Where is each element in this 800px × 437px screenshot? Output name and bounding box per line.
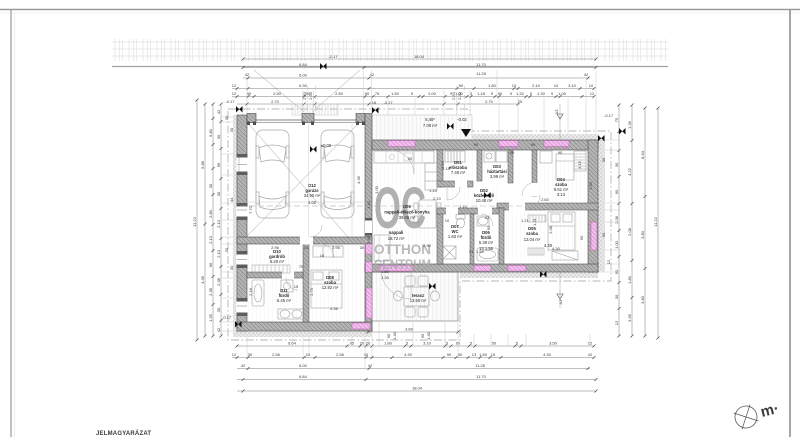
svg-text:2.50: 2.50 bbox=[273, 91, 282, 96]
axis line A3 bottom bbox=[559, 272, 561, 308]
svg-text:3.10: 3.10 bbox=[568, 83, 577, 88]
svg-text:75: 75 bbox=[614, 117, 619, 122]
svg-text:2.50: 2.50 bbox=[302, 91, 307, 100]
svg-text:7.48 m²: 7.48 m² bbox=[451, 170, 466, 175]
svg-text:1.21: 1.21 bbox=[532, 217, 537, 226]
garage dashed section line bbox=[240, 205, 368, 207]
svg-text:2.38: 2.38 bbox=[208, 287, 213, 296]
right dim line 11.22 bbox=[657, 108, 659, 338]
svg-text:30: 30 bbox=[248, 352, 253, 357]
svg-text:12: 12 bbox=[606, 259, 611, 264]
svg-text:JELMAGYARÁZAT: JELMAGYARÁZAT bbox=[96, 430, 151, 437]
svg-text:90: 90 bbox=[474, 142, 479, 147]
svg-text:1.50: 1.50 bbox=[588, 181, 593, 190]
door gap fürdő bbox=[478, 208, 492, 215]
svg-text:1.40: 1.40 bbox=[366, 200, 371, 209]
svg-text:10.48 m²: 10.48 m² bbox=[476, 198, 493, 203]
LEFT DIMENSIONS bbox=[197, 100, 221, 340]
dim line row C (6.00 / 11.28) bbox=[243, 77, 590, 79]
svg-text:2.08: 2.08 bbox=[548, 225, 553, 234]
svg-text:1.00: 1.00 bbox=[374, 185, 379, 194]
dimension extension lines right bbox=[598, 140, 620, 272]
svg-text:30: 30 bbox=[216, 191, 221, 196]
svg-text:12: 12 bbox=[232, 91, 237, 96]
window gap in left wall bottom (fürdő) bbox=[237, 298, 248, 316]
insulation band right of right wall bbox=[598, 140, 605, 272]
svg-text:2.30: 2.30 bbox=[457, 91, 462, 100]
svg-text:1.30: 1.30 bbox=[537, 91, 546, 96]
door gap WC bbox=[446, 208, 458, 215]
bottom wall window 1 (pink) bbox=[474, 266, 491, 272]
svg-text:5.80: 5.80 bbox=[208, 128, 213, 137]
svg-text:1.21: 1.21 bbox=[521, 218, 530, 223]
window gap in left wall upper bbox=[237, 154, 248, 175]
wall: left block bottom bbox=[237, 322, 372, 331]
svg-text:90: 90 bbox=[579, 235, 584, 240]
svg-text:10: 10 bbox=[589, 83, 594, 88]
svg-text:-0.17: -0.17 bbox=[222, 315, 232, 320]
svg-text:42: 42 bbox=[216, 109, 221, 114]
insulation band above right wing wall bbox=[472, 134, 598, 141]
window gap in left wall (gardrób) bbox=[237, 251, 248, 268]
svg-text:30: 30 bbox=[364, 352, 369, 357]
szoba D05 door swing bbox=[525, 195, 540, 210]
svg-text:12.92 m²: 12.92 m² bbox=[322, 285, 339, 290]
svg-text:2.90: 2.90 bbox=[423, 243, 432, 248]
window top wall 2 (pink) bbox=[544, 141, 569, 147]
right dim line 3 bbox=[644, 108, 646, 336]
FURNITURE: D08 wardrobe bbox=[313, 246, 343, 257]
entry triangle marker bbox=[461, 129, 471, 137]
garage front pier left bbox=[247, 114, 256, 123]
svg-text:1.80: 1.80 bbox=[384, 341, 393, 346]
svg-text:2.10: 2.10 bbox=[216, 219, 221, 228]
svg-text:A3: A3 bbox=[554, 109, 559, 115]
svg-text:11.70: 11.70 bbox=[476, 62, 486, 67]
svg-text:12.04 m²: 12.04 m² bbox=[524, 237, 541, 242]
svg-text:2.00: 2.00 bbox=[428, 91, 437, 96]
svg-text:11.28: 11.28 bbox=[476, 71, 486, 76]
svg-text:34.90 m²: 34.90 m² bbox=[304, 193, 321, 198]
svg-text:90: 90 bbox=[601, 232, 606, 237]
svg-text:1.10: 1.10 bbox=[459, 204, 468, 209]
svg-text:30: 30 bbox=[208, 183, 213, 188]
svg-text:12: 12 bbox=[232, 83, 237, 88]
svg-text:2.60: 2.60 bbox=[366, 235, 371, 244]
insulation band left of left wall bbox=[233, 115, 238, 337]
svg-text:-0.17: -0.17 bbox=[225, 99, 235, 104]
dim line row E (small dims) bbox=[232, 96, 594, 98]
svg-text:30: 30 bbox=[216, 134, 221, 139]
fürdő door swing bbox=[481, 214, 493, 226]
FURNITURE: car 2 bbox=[321, 130, 354, 218]
svg-text:16: 16 bbox=[372, 100, 377, 105]
svg-text:42: 42 bbox=[584, 72, 589, 77]
svg-text:6.30: 6.30 bbox=[299, 83, 308, 88]
WATERMARK bbox=[374, 176, 431, 272]
svg-text:10: 10 bbox=[491, 352, 496, 357]
door gap D05 bbox=[509, 203, 525, 211]
insulation band below right wing bottom wall bbox=[460, 272, 598, 278]
svg-text:90: 90 bbox=[447, 352, 452, 357]
svg-text:75: 75 bbox=[375, 91, 380, 96]
svg-text:12: 12 bbox=[614, 320, 619, 325]
terrace bottom dim line bbox=[368, 331, 458, 333]
svg-text:90: 90 bbox=[558, 150, 563, 155]
svg-text:2.08: 2.08 bbox=[614, 215, 619, 224]
svg-text:13.50 m²: 13.50 m² bbox=[410, 298, 427, 303]
section marker right dim bbox=[619, 128, 626, 135]
right dim detail line bbox=[618, 105, 620, 336]
bottom wall window 2 (pink) bbox=[508, 266, 526, 272]
svg-text:3.89: 3.89 bbox=[405, 327, 414, 332]
svg-text:2.96: 2.96 bbox=[272, 352, 281, 357]
FURNITURE: kitchen counter bbox=[374, 151, 434, 163]
svg-text:6.00: 6.00 bbox=[299, 363, 308, 368]
dim line row A (-2.17 / 18.04) bbox=[243, 58, 596, 60]
wall: garage right / porch left spine bbox=[365, 114, 372, 332]
FURNITURE: D05 bed bbox=[548, 212, 575, 250]
svg-text:-0.17: -0.17 bbox=[604, 113, 614, 118]
svg-text:42: 42 bbox=[216, 327, 221, 332]
wall: D01/D03 vertical bbox=[477, 150, 482, 181]
svg-text:30: 30 bbox=[229, 127, 234, 132]
svg-text:26: 26 bbox=[366, 341, 371, 346]
svg-text:50: 50 bbox=[408, 156, 413, 161]
wall: fürdő / szoba vertical bbox=[499, 208, 504, 264]
svg-text:44: 44 bbox=[229, 197, 234, 202]
svg-text:42: 42 bbox=[588, 352, 593, 357]
D08 terrace door (pink) on spine wall bbox=[366, 288, 372, 318]
svg-text:1.80: 1.80 bbox=[627, 275, 632, 284]
svg-text:42: 42 bbox=[368, 363, 373, 368]
wall: garage / back rooms divider bbox=[237, 237, 372, 244]
D08 door swing bbox=[320, 244, 334, 258]
svg-text:90: 90 bbox=[614, 269, 619, 274]
svg-text:4.30: 4.30 bbox=[543, 352, 552, 357]
svg-text:6.64: 6.64 bbox=[288, 341, 297, 346]
svg-text:1.32: 1.32 bbox=[516, 91, 525, 96]
wall: WC / fürdő vertical bbox=[470, 214, 474, 264]
svg-text:nappali: nappali bbox=[389, 230, 404, 235]
svg-text:6.20 m²: 6.20 m² bbox=[270, 259, 285, 264]
FURNITURE: kitchen tall units bbox=[425, 163, 437, 190]
svg-text:42: 42 bbox=[241, 363, 246, 368]
svg-text:6.45 m²: 6.45 m² bbox=[277, 298, 292, 303]
svg-text:30: 30 bbox=[601, 157, 606, 162]
window right wall (pink) bbox=[591, 222, 597, 250]
svg-text:6.84: 6.84 bbox=[299, 62, 308, 67]
pink corner mark bottom of spine bbox=[352, 323, 370, 329]
pink corner joint spine/bottom wall bbox=[366, 262, 373, 272]
svg-text:90: 90 bbox=[614, 189, 619, 194]
right dim line 2 bbox=[631, 105, 633, 336]
svg-text:90: 90 bbox=[365, 91, 370, 96]
svg-text:A3: A3 bbox=[558, 299, 563, 305]
svg-text:2.96: 2.96 bbox=[271, 245, 280, 250]
svg-text:96: 96 bbox=[216, 162, 221, 167]
FURNITURE: car 1 bbox=[256, 130, 289, 218]
svg-text:11.22: 11.22 bbox=[653, 216, 658, 226]
section marker porch bbox=[447, 123, 454, 130]
door gap D11 bbox=[282, 272, 294, 279]
roof diagonal through garage to terrace bbox=[247, 122, 419, 318]
svg-text:13: 13 bbox=[472, 352, 477, 357]
roof diagonal garage cross bbox=[247, 122, 360, 236]
svg-text:2.60: 2.60 bbox=[541, 197, 550, 202]
svg-text:3.50: 3.50 bbox=[549, 341, 558, 346]
axis line A3 top bbox=[559, 104, 561, 140]
svg-text:18.04: 18.04 bbox=[412, 386, 423, 391]
insulation band below left block bottom wall bbox=[233, 331, 372, 337]
wall: right wing right bbox=[588, 140, 598, 272]
svg-text:2.10: 2.10 bbox=[440, 160, 445, 169]
FURNITURE: WC toilet bbox=[443, 215, 465, 260]
wall: right wing bottom bbox=[365, 264, 598, 272]
svg-text:3.13: 3.13 bbox=[557, 192, 566, 197]
wall: left exterior bbox=[237, 115, 247, 331]
svg-text:5.39 m²: 5.39 m² bbox=[479, 240, 494, 245]
left dim line 11.22 bbox=[196, 100, 198, 340]
svg-text:13: 13 bbox=[469, 249, 474, 254]
bottom dim row 1 bbox=[237, 345, 594, 347]
svg-text:2.10: 2.10 bbox=[433, 196, 442, 201]
svg-text:30: 30 bbox=[224, 247, 229, 252]
section marker A bbox=[236, 106, 243, 113]
left dim line 5.86/4.36 bbox=[204, 104, 206, 336]
FURNITURE: sofa nappali bbox=[374, 235, 390, 261]
svg-text:7.70: 7.70 bbox=[248, 205, 253, 214]
svg-text:D09: D09 bbox=[403, 204, 411, 209]
garage front pier right bbox=[356, 114, 365, 123]
svg-text:2.30: 2.30 bbox=[308, 91, 313, 100]
svg-text:90: 90 bbox=[459, 83, 464, 88]
svg-text:4.36: 4.36 bbox=[356, 175, 361, 184]
svg-text:1.40: 1.40 bbox=[426, 331, 431, 340]
left dim line details bbox=[212, 104, 214, 336]
bottom dim row 4 bbox=[237, 379, 596, 381]
svg-text:2.38: 2.38 bbox=[216, 277, 221, 286]
dim line row B (6.84 / 11.70) bbox=[243, 67, 596, 69]
svg-text:5,40²: 5,40² bbox=[425, 117, 435, 122]
terrace deck bbox=[368, 272, 458, 321]
wall: D04 bottom / szoba top bbox=[497, 203, 598, 210]
svg-text:2.70: 2.70 bbox=[271, 99, 280, 104]
svg-text:2.10: 2.10 bbox=[532, 83, 541, 88]
section marker B bbox=[372, 107, 379, 114]
svg-text:30: 30 bbox=[229, 265, 234, 270]
level marker garage bbox=[310, 146, 317, 153]
FURNITURE: dining table bbox=[414, 200, 441, 228]
window top wall 1 (pink) bbox=[499, 141, 518, 147]
svg-text:2.50: 2.50 bbox=[451, 91, 456, 100]
niche gap in spine wall (nappali) bbox=[365, 218, 372, 236]
svg-text:2.73: 2.73 bbox=[309, 287, 314, 296]
section marker bottom-left corner bbox=[235, 321, 242, 328]
svg-text:2.18: 2.18 bbox=[248, 287, 253, 296]
FURNITURE: D03 appliances bbox=[484, 151, 507, 162]
dimension extension lines bottom bbox=[247, 322, 590, 368]
FURNITURE: terrace table & chairs bbox=[394, 276, 440, 317]
compass bbox=[730, 401, 763, 434]
svg-text:2.30: 2.30 bbox=[381, 275, 390, 280]
FURNITURE: D10 wardrobe comb bbox=[252, 265, 290, 273]
section marker bottom wall bbox=[540, 271, 547, 278]
black section markers (bowties) bbox=[235, 63, 626, 328]
svg-text:90: 90 bbox=[247, 91, 252, 96]
svg-text:18.04: 18.04 bbox=[414, 54, 425, 59]
svg-text:12: 12 bbox=[232, 352, 237, 357]
svg-text:3.13: 3.13 bbox=[577, 160, 582, 169]
svg-text:11.22: 11.22 bbox=[192, 216, 197, 226]
page frame right line bbox=[789, 10, 791, 437]
FURNITURE: D05 chest bbox=[552, 251, 578, 260]
door gap D08 bbox=[300, 237, 313, 245]
terrace door swing bbox=[381, 269, 411, 299]
előszoba to közlekedő swing bbox=[447, 187, 460, 200]
door gap előszoba bbox=[455, 181, 467, 188]
pink joint spine/divider wall bbox=[366, 244, 373, 254]
svg-text:1.40: 1.40 bbox=[392, 331, 397, 340]
FURNITURE: D05 radiator comb bbox=[528, 215, 546, 255]
svg-text:90: 90 bbox=[486, 225, 491, 230]
svg-text:43: 43 bbox=[485, 215, 490, 220]
roof projection V funnel left arm bbox=[254, 70, 304, 112]
svg-text:4.36: 4.36 bbox=[330, 306, 339, 311]
svg-text:1.55: 1.55 bbox=[479, 352, 488, 357]
svg-text:1.80: 1.80 bbox=[488, 83, 497, 88]
svg-text:30: 30 bbox=[360, 245, 365, 250]
short dashed axis stubs above garage door bbox=[308, 86, 465, 114]
svg-text:1.18: 1.18 bbox=[477, 91, 486, 96]
bottom dim row 2 bbox=[232, 357, 594, 359]
svg-text:nappali-étkező-konyha: nappali-étkező-konyha bbox=[384, 210, 430, 215]
svg-text:-0.02: -0.02 bbox=[457, 117, 467, 122]
entry door (pink) top wall bbox=[388, 141, 415, 147]
D11 door swing bbox=[286, 278, 298, 290]
svg-text:2.96: 2.96 bbox=[336, 352, 345, 357]
A3 triangle top bbox=[557, 114, 563, 119]
svg-text:4.36: 4.36 bbox=[200, 275, 205, 284]
level marker hall bbox=[484, 192, 491, 199]
pavement lower edge line bbox=[112, 66, 668, 68]
FURNITURE: D08 bed bbox=[311, 270, 342, 308]
dimension extension lines left bbox=[222, 117, 237, 331]
svg-text:6.00: 6.00 bbox=[308, 200, 317, 205]
top pavement hatch band bbox=[112, 39, 668, 61]
svg-text:szoba: szoba bbox=[526, 231, 539, 236]
svg-text:2.10: 2.10 bbox=[216, 249, 221, 258]
svg-text:2.96: 2.96 bbox=[332, 245, 341, 250]
room floor stripes bbox=[247, 150, 588, 322]
svg-text:95: 95 bbox=[350, 341, 355, 346]
wall: D03 right vertical bbox=[508, 150, 513, 183]
ROOM LABELS bbox=[269, 117, 569, 303]
page frame top line bbox=[0, 9, 800, 11]
svg-text:15: 15 bbox=[294, 284, 299, 289]
svg-text:96: 96 bbox=[208, 262, 213, 267]
BOTTOM DIMENSIONS bbox=[232, 346, 596, 391]
svg-text:±0.00: ±0.00 bbox=[321, 143, 332, 148]
TOP DIMENSIONS bbox=[232, 59, 596, 104]
svg-text:3.99 m²: 3.99 m² bbox=[490, 174, 505, 179]
garage front pier center bbox=[302, 114, 314, 123]
section marker top dim bbox=[320, 63, 327, 70]
dimension extension lines top bbox=[247, 70, 596, 140]
svg-text:36.06 m²: 36.06 m² bbox=[399, 215, 416, 220]
terrace door nappali (pink) bbox=[379, 266, 413, 272]
svg-text:8.64: 8.64 bbox=[640, 150, 645, 159]
svg-text:1.05: 1.05 bbox=[558, 91, 567, 96]
window gap in left wall mid bbox=[237, 203, 248, 220]
dim line row F (2.70 segments) bbox=[237, 103, 520, 105]
svg-text:30: 30 bbox=[216, 307, 221, 312]
nappali dashed section line bbox=[372, 205, 598, 207]
garage apron grate bbox=[292, 104, 338, 115]
svg-text:16: 16 bbox=[320, 253, 325, 258]
svg-text:2.08: 2.08 bbox=[627, 227, 632, 236]
entry door swing bbox=[390, 150, 414, 174]
rotated small labels near garage door bbox=[302, 91, 563, 340]
wall: D10 / D11 horizontal bbox=[247, 272, 303, 278]
svg-text:11.28: 11.28 bbox=[475, 363, 485, 368]
svg-text:2.10: 2.10 bbox=[208, 235, 213, 244]
svg-text:4.30: 4.30 bbox=[552, 246, 561, 251]
garage back door swing bbox=[310, 225, 322, 237]
section marker terrace bbox=[429, 283, 436, 290]
svg-text:50: 50 bbox=[492, 341, 497, 346]
svg-text:1.55: 1.55 bbox=[208, 313, 213, 322]
bottom dim row 5 bbox=[237, 390, 596, 392]
svg-text:1.55: 1.55 bbox=[476, 249, 485, 254]
svg-text:3.80: 3.80 bbox=[640, 295, 645, 304]
svg-text:10: 10 bbox=[445, 218, 450, 223]
svg-text:2.50: 2.50 bbox=[335, 91, 344, 96]
svg-text:1.83 m²: 1.83 m² bbox=[448, 234, 463, 239]
svg-text:3.80: 3.80 bbox=[640, 230, 645, 239]
svg-text:5.86: 5.86 bbox=[200, 160, 205, 169]
svg-text:6.00: 6.00 bbox=[299, 73, 308, 78]
svg-text:2.80: 2.80 bbox=[208, 209, 213, 218]
porch deck bbox=[372, 115, 472, 140]
svg-text:12: 12 bbox=[590, 91, 595, 96]
svg-text:75: 75 bbox=[518, 99, 523, 104]
svg-text:30: 30 bbox=[614, 294, 619, 299]
terrace slab edge bbox=[368, 272, 458, 321]
svg-text:30: 30 bbox=[614, 162, 619, 167]
svg-text:18.72 m²: 18.72 m² bbox=[388, 236, 405, 241]
door gap D04 bbox=[532, 183, 538, 196]
svg-text:1.36: 1.36 bbox=[627, 120, 632, 129]
svg-text:42: 42 bbox=[370, 72, 375, 77]
svg-text:7.08 m²: 7.08 m² bbox=[423, 123, 438, 128]
svg-text:90: 90 bbox=[420, 333, 425, 338]
svg-text:1.50: 1.50 bbox=[391, 91, 400, 96]
RIGHT DIMENSIONS bbox=[619, 105, 658, 338]
tick marks top dims bbox=[236, 58, 598, 106]
svg-text:3.56: 3.56 bbox=[627, 313, 632, 322]
svg-text:-2.17: -2.17 bbox=[328, 54, 338, 59]
svg-text:90: 90 bbox=[498, 91, 503, 96]
door swing arcs bbox=[286, 150, 540, 299]
FURNITURE: D11 bathroom fixtures bbox=[252, 280, 304, 319]
svg-text:1.10: 1.10 bbox=[429, 188, 438, 193]
svg-text:4.22: 4.22 bbox=[627, 167, 632, 176]
svg-text:10: 10 bbox=[554, 83, 559, 88]
svg-text:6.84: 6.84 bbox=[299, 374, 308, 379]
roof overhang dashed outline bbox=[228, 109, 611, 340]
page frame left line bbox=[10, 10, 12, 437]
